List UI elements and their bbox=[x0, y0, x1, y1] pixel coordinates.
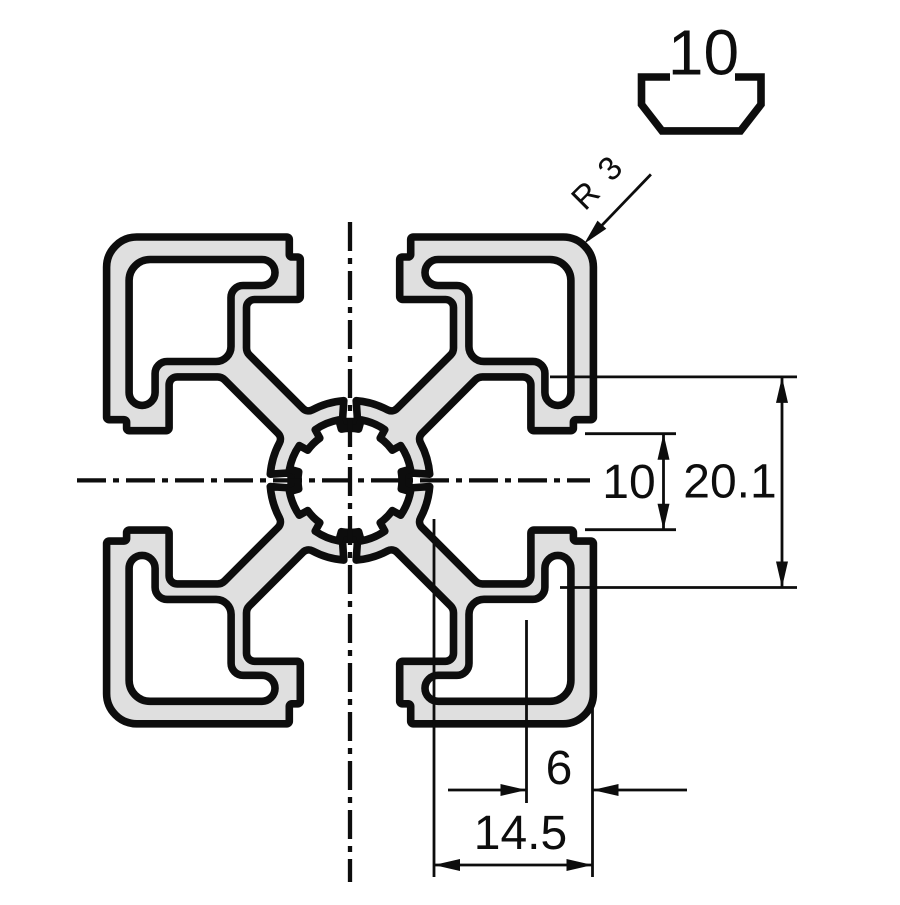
extension line at profile right face bbox=[591, 706, 594, 877]
extension line bottom for dim 10 bbox=[585, 528, 676, 531]
T-slot nominal size symbol bbox=[642, 77, 762, 131]
aluminium extrusion profile cross-section: outer contour with four T-slots bbox=[107, 237, 594, 724]
svg-text:10: 10 bbox=[602, 456, 655, 509]
corner hollow chamber bottom-right bbox=[425, 555, 571, 701]
leader line for R3 bbox=[588, 174, 651, 239]
corner hollow chamber top-right bbox=[425, 260, 571, 406]
vertical centerline bbox=[348, 222, 352, 882]
extension line at slot floor (x=434) bbox=[433, 519, 436, 877]
svg-text:3: 3 bbox=[590, 149, 629, 188]
corner hollow chamber bottom-left bbox=[129, 555, 275, 701]
svg-text:14.5: 14.5 bbox=[474, 807, 567, 860]
dimension line 20.1 with arrows bbox=[781, 377, 784, 588]
dimension line 14.5 with arrows bbox=[434, 864, 593, 867]
dim 6 right arrow bbox=[593, 789, 688, 792]
dim 6 left arrow bbox=[448, 789, 527, 792]
extension line at slot throat (x=526) bbox=[525, 620, 528, 803]
extension line bottom for dim 20.1 bbox=[560, 586, 797, 589]
extension line top for dim 20.1 bbox=[550, 375, 797, 378]
svg-text:6: 6 bbox=[546, 742, 573, 795]
horizontal centerline bbox=[77, 478, 590, 482]
central splined core bore bbox=[290, 420, 411, 541]
svg-text:20.1: 20.1 bbox=[683, 456, 776, 509]
svg-text:10: 10 bbox=[668, 17, 739, 89]
corner hollow chamber top-left bbox=[129, 260, 275, 406]
dimension line 10 with arrows bbox=[662, 434, 665, 530]
extension line top for dim 10 bbox=[585, 432, 676, 435]
svg-text:R: R bbox=[564, 174, 607, 217]
